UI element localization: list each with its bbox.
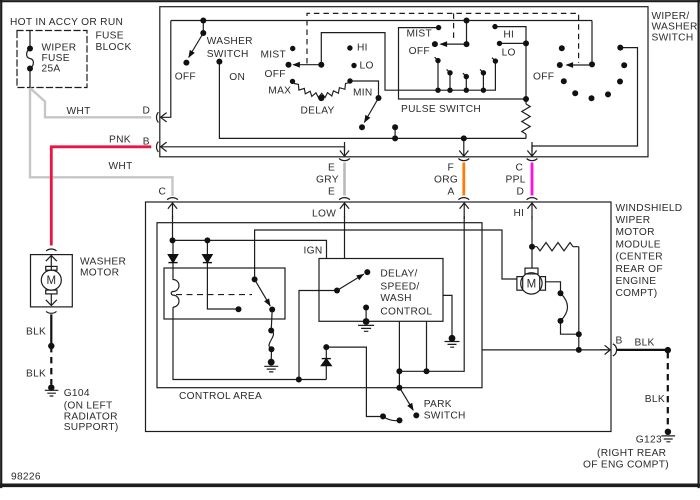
delay rheostat squiggle — [294, 83, 350, 98]
resistor R1 — [522, 99, 530, 138]
wire WHT fuse to D connector — [30, 88, 151, 117]
diode CR3 stems — [325, 347, 327, 379]
wire BLK dashed to G123 — [667, 352, 669, 429]
svg-text:MODULE: MODULE — [616, 239, 661, 250]
washer switch ON feed wire — [219, 62, 526, 139]
svg-text:CONTROL: CONTROL — [380, 307, 432, 318]
svg-text:98226: 98226 — [11, 471, 41, 482]
svg-text:IGN: IGN — [304, 245, 323, 256]
wire BLK module to G123 dot — [617, 349, 668, 351]
ground G123 bars — [661, 436, 675, 442]
svg-text:WASHER: WASHER — [80, 257, 126, 268]
svg-text:BLK: BLK — [26, 327, 46, 338]
wire HI right group — [495, 27, 526, 99]
svg-text:C: C — [159, 187, 167, 198]
svg-text:B: B — [616, 335, 623, 346]
fuse F1 lead top — [29, 31, 31, 49]
wire B inside to E drop — [160, 147, 344, 152]
svg-text:PARK: PARK — [424, 399, 452, 410]
connector B arrow — [161, 142, 167, 151]
relay contact flex lead — [269, 310, 273, 363]
svg-text:WIPER/: WIPER/ — [652, 11, 690, 22]
relay box — [164, 268, 285, 319]
svg-text:ORG: ORG — [434, 175, 458, 186]
svg-text:WIPER: WIPER — [616, 215, 651, 226]
wiper motor M2 tabs — [525, 268, 538, 274]
delay unit drop to park common — [398, 321, 400, 387]
wire A down and left to park feeds — [399, 216, 464, 371]
svg-text:WHT: WHT — [67, 106, 91, 117]
svg-text:25A: 25A — [42, 64, 61, 75]
connector B arc — [156, 142, 158, 152]
wire PPL C to D — [531, 163, 534, 196]
svg-text:ENGINE: ENGINE — [616, 276, 657, 287]
wiper/washer switch box — [160, 7, 648, 157]
svg-text:(CENTER: (CENTER — [616, 252, 663, 263]
wire rotary HI position to C drop — [532, 48, 638, 152]
arrow into B connector — [600, 345, 610, 354]
svg-text:SUPPORT): SUPPORT) — [64, 422, 119, 433]
svg-text:FUSE: FUSE — [96, 30, 124, 41]
top feed rail inside switch box — [171, 20, 592, 22]
fuse F1 element — [27, 48, 34, 69]
diode CR1 stem — [172, 240, 174, 268]
pulse switch contact stubs — [438, 61, 483, 91]
arrow up inside module at A — [460, 203, 469, 219]
border frame bottom — [0, 483, 700, 487]
svg-text:LO: LO — [360, 61, 374, 72]
relay coil K1 — [171, 268, 179, 307]
delay unit input switch blade — [337, 274, 364, 290]
svg-text:CONTROL AREA: CONTROL AREA — [179, 391, 262, 402]
svg-text:B: B — [143, 137, 150, 148]
svg-text:F: F — [448, 163, 455, 174]
svg-text:RADIATOR: RADIATOR — [64, 411, 118, 422]
wire GRY E to E — [343, 163, 346, 196]
svg-text:MIN: MIN — [353, 88, 373, 99]
wire motor right tab to brush arc — [546, 282, 561, 293]
fuse terminal dots — [27, 46, 33, 72]
lower wiper contact stub — [394, 127, 396, 138]
svg-text:WHT: WHT — [109, 161, 133, 172]
connector F lower arc — [458, 198, 469, 200]
svg-text:WINDSHIELD: WINDSHIELD — [616, 203, 683, 214]
connector D arc — [156, 112, 158, 122]
svg-text:HI: HI — [503, 30, 514, 41]
connector C lower arc (module D) — [527, 198, 538, 200]
svg-text:M: M — [47, 275, 57, 287]
wire ORG F to A — [462, 163, 465, 196]
pulse OFF tap from top rail — [466, 21, 468, 45]
svg-text:LOW: LOW — [312, 209, 336, 220]
arrow down into F connector — [459, 139, 468, 156]
wire D inside up to top rail — [160, 21, 171, 118]
control area box — [157, 223, 482, 388]
svg-text:OFF: OFF — [409, 46, 430, 57]
svg-text:MOTOR: MOTOR — [80, 268, 119, 279]
svg-text:BLK: BLK — [635, 337, 655, 348]
washer switch blade — [189, 33, 204, 58]
diode CR1 — [168, 255, 331, 366]
wire MIN to lower wiper pivot — [350, 81, 379, 98]
relay contact feed wire from motor — [255, 230, 517, 279]
connector E upper arc — [339, 159, 350, 161]
svg-text:HI: HI — [357, 43, 368, 54]
ground G104 bars — [45, 390, 59, 396]
svg-text:GRY: GRY — [316, 175, 339, 186]
arrow down into C connector — [527, 142, 536, 156]
svg-text:MAX: MAX — [268, 86, 291, 97]
svg-text:MOTOR: MOTOR — [616, 227, 655, 238]
wire MIST right group feed — [399, 28, 527, 99]
svg-text:WASHER: WASHER — [207, 36, 253, 47]
delay/speed/wash control box U1 — [319, 259, 443, 322]
svg-text:DELAY/: DELAY/ — [380, 269, 417, 280]
svg-text:OFF: OFF — [175, 72, 196, 83]
svg-text:HI: HI — [514, 208, 525, 219]
connector E lower arc — [339, 198, 350, 200]
svg-text:LO: LO — [502, 48, 516, 59]
svg-text:SWITCH: SWITCH — [207, 49, 249, 60]
wire HI down to motor resistor node — [531, 216, 533, 247]
wire LO right group — [500, 42, 527, 44]
delay unit internal ground stem — [365, 308, 367, 322]
svg-text:(RIGHT REAR: (RIGHT REAR — [597, 448, 666, 459]
fuse block dashed box — [17, 31, 87, 88]
relay contact blade — [255, 279, 271, 306]
svg-text:C: C — [516, 163, 524, 174]
IGN bus from C to control unit — [173, 240, 327, 258]
G104 dots — [48, 343, 54, 391]
delay unit drop to A line — [426, 321, 428, 371]
svg-text:SWITCH: SWITCH — [652, 33, 694, 44]
wire C down to IGN bus — [172, 216, 174, 240]
connector C upper arc — [527, 159, 538, 161]
svg-text:REAR OF: REAR OF — [616, 264, 663, 275]
svg-text:BLK: BLK — [26, 369, 46, 380]
svg-text:ON: ON — [229, 72, 245, 83]
brush arc — [561, 293, 568, 321]
output bus to B connector — [482, 349, 607, 351]
svg-text:E: E — [328, 163, 335, 174]
svg-text:OFF: OFF — [533, 72, 554, 83]
svg-text:WASHER: WASHER — [652, 22, 698, 33]
washer switch stub — [202, 21, 204, 34]
svg-text:COMPT): COMPT) — [616, 288, 658, 299]
wire R2 down to brush node — [578, 247, 580, 350]
rotary wiper arrow — [567, 64, 593, 66]
svg-text:D: D — [143, 106, 151, 117]
svg-text:PPL: PPL — [506, 175, 526, 186]
wire BLK dashed to G104 — [50, 346, 52, 385]
svg-text:D: D — [517, 187, 525, 198]
wire OFF wiper to pulse rail — [321, 33, 495, 91]
svg-text:OFF: OFF — [265, 69, 286, 80]
pulse stub ticks — [435, 57, 496, 76]
connector module-C lower arc — [167, 198, 178, 200]
dashed mechanical link — [307, 13, 579, 63]
fuse F1 lead bottom — [29, 69, 31, 88]
motor M letters — [47, 275, 537, 290]
module junction dots — [170, 237, 672, 435]
diode CR2 stem — [207, 240, 238, 309]
wire brush to R2 node — [561, 321, 579, 334]
svg-text:A: A — [448, 187, 455, 198]
windshield wiper motor module box — [146, 202, 612, 432]
svg-text:BLOCK: BLOCK — [96, 42, 132, 53]
svg-text:SWITCH: SWITCH — [424, 410, 466, 421]
arrow down into E connector — [340, 142, 349, 156]
wire WHT fuse to module C connector — [30, 88, 173, 196]
wire E/LOW down into control unit — [344, 216, 346, 259]
diode CR3 — [322, 359, 332, 366]
delay unit right ground wire — [443, 295, 452, 338]
svg-text:WIPER: WIPER — [42, 43, 77, 54]
delay unit blade feed — [299, 291, 337, 380]
svg-text:HOT IN ACCY OR RUN: HOT IN ACCY OR RUN — [10, 17, 123, 28]
pulse OFF wiper arrow — [441, 43, 467, 45]
diode CR2 — [203, 255, 212, 263]
svg-text:SPEED/: SPEED/ — [380, 282, 419, 293]
arrow up inside module at D/HI — [527, 203, 536, 219]
svg-text:MIST: MIST — [407, 29, 433, 40]
svg-text:G123: G123 — [636, 434, 662, 445]
svg-text:G104: G104 — [64, 388, 90, 399]
ground G2 bars — [358, 325, 374, 331]
washer motor M1 — [31, 249, 73, 313]
svg-text:PULSE SWITCH: PULSE SWITCH — [401, 104, 481, 115]
svg-text:WASH: WASH — [380, 293, 411, 304]
svg-text:OF ENG COMPT): OF ENG COMPT) — [583, 459, 669, 470]
arrow up inside module at E — [340, 203, 349, 219]
svg-text:M: M — [527, 278, 537, 290]
lower wiper blade with arrow — [364, 98, 378, 123]
wire BLK washer motor solid — [50, 314, 52, 346]
wire HI to motor top — [531, 247, 533, 268]
left group OFF wiper arrow — [294, 64, 322, 66]
resistor R2 feed — [532, 243, 579, 251]
park switch left blade — [383, 417, 400, 421]
park switch arm blade — [400, 388, 414, 411]
relay coil ground return — [173, 307, 326, 379]
rotary OFF feed from top rail — [591, 21, 593, 65]
ground G3 bars — [445, 342, 460, 348]
svg-text:BLK: BLK — [645, 394, 665, 405]
svg-text:FUSE: FUSE — [42, 53, 70, 64]
ground G1 bars — [264, 366, 278, 372]
connector F upper arc — [458, 159, 469, 161]
connector B(out) arc — [613, 344, 617, 356]
svg-text:PNK: PNK — [109, 134, 131, 145]
switch box junction and contact dots — [183, 18, 627, 142]
arrow up inside module at C — [168, 203, 177, 219]
wire CR3 to park contact — [326, 347, 383, 416]
svg-text:MIST: MIST — [261, 50, 287, 61]
svg-text:DELAY: DELAY — [301, 106, 335, 117]
svg-text:E: E — [328, 187, 335, 198]
connector D arrow — [161, 113, 167, 122]
wire PNK B connector to washer motor — [51, 147, 151, 246]
svg-text:(ON LEFT: (ON LEFT — [64, 401, 113, 412]
wiper motor M2 circle — [521, 273, 542, 294]
relay dashed link — [176, 294, 252, 296]
